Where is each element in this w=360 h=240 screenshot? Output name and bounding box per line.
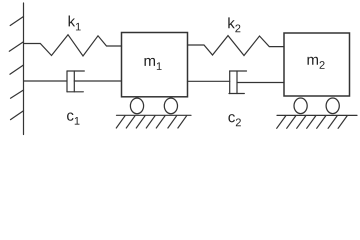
- ground hatching under m1: [116, 116, 125, 128]
- wall hatch 2: [9, 42, 23, 52]
- label c2: [228, 114, 240, 126]
- label m2: [308, 57, 325, 69]
- ground hatching under m2: [277, 116, 286, 128]
- label m1: [145, 58, 162, 70]
- damper c2 rod right (wire): [237, 82, 284, 84]
- damper c2 rod left (wire): [188, 80, 230, 82]
- label k1: [69, 16, 81, 31]
- wheel 1 of m2: [294, 98, 307, 114]
- wall hatch 3: [10, 65, 24, 74]
- mass m1 box: [122, 33, 188, 97]
- ground line under m1: [117, 114, 192, 116]
- wheel 1 of m1: [130, 98, 143, 114]
- damper c1 body: [66, 71, 68, 92]
- wheel 2 of m2: [326, 98, 339, 114]
- damper c2 body: [229, 71, 231, 94]
- wall hatch 5: [11, 111, 24, 120]
- mass m2 box: [284, 33, 350, 96]
- wall hatch 1: [10, 17, 23, 26]
- label c1: [67, 113, 79, 125]
- damper c1 rod right (wire): [74, 80, 121, 82]
- wall: [23, 3, 25, 135]
- label k2: [228, 17, 240, 32]
- wheel 2 of m1: [164, 98, 177, 114]
- damper c1 rod left (wire): [24, 80, 68, 82]
- ground line under m2: [277, 114, 357, 116]
- spring k1: [24, 35, 122, 56]
- spring k2: [188, 36, 285, 56]
- wall hatch 4: [11, 90, 24, 98]
